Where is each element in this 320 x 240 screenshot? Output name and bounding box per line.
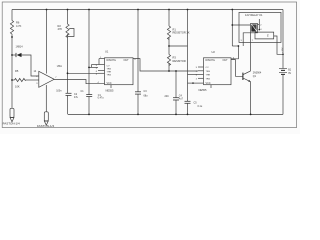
wire IC2 vcc link — [188, 82, 204, 84]
wire rail x=232.3 — [231, 10, 233, 47]
transistor Q1 — [243, 71, 251, 82]
svg-text:VCC: VCC — [107, 82, 112, 85]
capacitor C4 — [173, 98, 179, 100]
junction dots bottom bus — [88, 114, 90, 116]
wire rail x=187.5 — [187, 10, 189, 75]
resistor R6 — [10, 21, 13, 35]
terminal J1 — [10, 108, 14, 122]
wire IC1 left stub4 — [98, 72, 105, 74]
wire IC2 left stubs — [198, 66, 204, 68]
relay contact pivot — [259, 29, 261, 31]
svg-text:68u: 68u — [144, 95, 149, 98]
wire relay pin7 to collector — [250, 33, 252, 71]
wire rail x=46.5 to op-amp top — [46, 10, 48, 74]
resistor R1 — [167, 26, 170, 40]
svg-text:OUT: OUT — [124, 59, 130, 62]
node dot R5 junction — [11, 79, 13, 81]
capacitor C5 — [185, 101, 191, 103]
wire IC1 bottom stub — [110, 85, 112, 88]
node dot diode junction — [11, 54, 13, 56]
svg-text:U2: U2 — [212, 50, 216, 54]
wire node link y=46 — [169, 45, 188, 47]
wire relay pin3 drop — [243, 33, 250, 46]
svg-text:4.7K: 4.7K — [16, 24, 22, 28]
wire left rail x=12 — [11, 10, 13, 21]
svg-text:1N914: 1N914 — [16, 46, 24, 49]
svg-text:OUT: OUT — [223, 59, 229, 62]
trimmer R2 — [66, 24, 74, 38]
svg-text:NE555: NE555 — [199, 88, 207, 92]
wire relay coil feed — [232, 24, 250, 26]
svg-text:DISCHG: DISCHG — [206, 59, 215, 62]
relay coil — [251, 24, 258, 33]
resistor R3 — [167, 55, 170, 66]
svg-text:10K: 10K — [15, 85, 20, 89]
node dot A — [11, 36, 13, 38]
svg-text:+12V: +12V — [282, 47, 284, 53]
svg-text:TRG: TRG — [206, 79, 211, 81]
IC U1 NE555 — [105, 58, 134, 85]
wire cap C4 drop — [175, 71, 177, 98]
wire to IC1 pin2 — [89, 66, 98, 68]
svg-text:TRG: TRG — [107, 74, 112, 76]
svg-text:CV: CV — [206, 67, 210, 69]
wire IC1 pin stub thr — [98, 69, 105, 71]
op-amp U5A — [39, 71, 54, 87]
terminal J2 — [44, 112, 48, 125]
wire to IC2 pin3 — [188, 74, 199, 76]
svg-text:47K: 47K — [58, 27, 63, 31]
wire node to IC1 trig — [68, 72, 99, 74]
svg-text:FASTON-1/4: FASTON-1/4 — [37, 124, 54, 128]
svg-text:100n: 100n — [56, 90, 62, 93]
wire op-amp bottom to terminal — [45, 85, 47, 112]
svg-text:THR: THR — [206, 75, 211, 77]
wire diode branch — [12, 54, 16, 56]
diode D1 — [16, 53, 22, 57]
wire IC1 out to IC2 trig y=71 — [133, 59, 198, 71]
svg-text:0.1u: 0.1u — [198, 105, 203, 108]
wire R5 to op-amp — [26, 79, 39, 81]
wire rail x=89 — [88, 10, 90, 95]
border frame — [2, 2, 296, 128]
svg-text:RESISTOR: RESISTOR — [173, 59, 186, 63]
svg-text:FASTON-1/4: FASTON-1/4 — [3, 122, 20, 126]
svg-text:TRG: TRG — [206, 71, 211, 73]
wire relay contact to battery — [277, 42, 283, 54]
svg-text:THR: THR — [107, 71, 112, 73]
svg-text:DISCHG: DISCHG — [107, 59, 116, 62]
svg-text:U5A: U5A — [57, 64, 62, 68]
battery B1 — [279, 69, 287, 75]
wire rail x=67.5 — [67, 10, 69, 25]
svg-text:9V: 9V — [288, 72, 291, 75]
svg-text:0.47u: 0.47u — [98, 97, 105, 100]
wire IC2 out drop — [231, 60, 243, 77]
svg-text:24C: 24C — [165, 95, 170, 98]
wire op-amp output — [54, 80, 104, 84]
wire to IC2 reset — [232, 45, 238, 47]
svg-text:TRG: TRG — [107, 69, 112, 71]
relay K1 box — [239, 12, 281, 42]
svg-text:VCC: VCC — [206, 82, 211, 85]
wire rail x=169 — [168, 10, 170, 27]
wire battery rail — [282, 10, 284, 69]
svg-text:RESISTOR 1K: RESISTOR 1K — [173, 31, 190, 35]
svg-text:12V RELAY K1: 12V RELAY K1 — [245, 13, 263, 17]
junction dots top bus — [46, 9, 48, 11]
svg-text:NE555: NE555 — [106, 89, 114, 93]
wire bottom ground bus — [68, 113, 283, 115]
svg-text:47u: 47u — [74, 96, 79, 99]
wire IC2 bottom stub — [210, 85, 212, 88]
svg-text:CV: CV — [107, 66, 111, 68]
wire IC1 pin1 link — [99, 58, 105, 60]
junction dots middle — [67, 72, 69, 74]
svg-text:4u7: 4u7 — [179, 98, 184, 101]
wire top supply bus — [12, 9, 283, 11]
capacitor C2 100n — [66, 93, 72, 95]
svg-text:U1: U1 — [105, 50, 109, 54]
resistor R5 — [15, 78, 26, 81]
capacitor C1 — [86, 95, 92, 97]
IC U2 NE555 — [204, 58, 232, 85]
svg-text:R5: R5 — [15, 69, 19, 73]
capacitor C3 — [135, 92, 141, 94]
wire rail x=138 — [137, 10, 139, 92]
wire emitter to ground bus — [250, 82, 252, 115]
